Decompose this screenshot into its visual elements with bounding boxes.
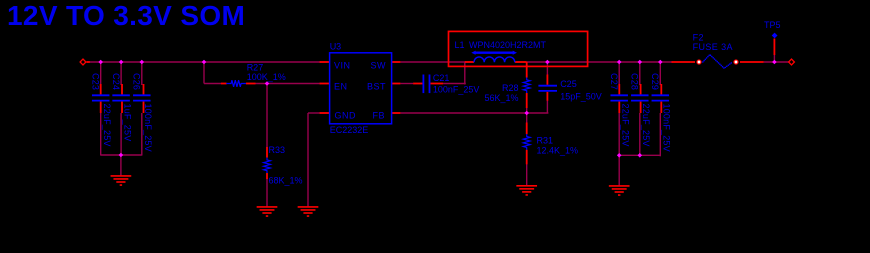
- svg-text:TP5: TP5: [764, 20, 781, 30]
- svg-text:22uF_25V: 22uF_25V: [641, 104, 651, 147]
- svg-text:EN: EN: [334, 82, 348, 92]
- svg-text:R27: R27: [247, 63, 264, 73]
- svg-text:EC2232E: EC2232E: [330, 125, 369, 135]
- svg-text:C26: C26: [132, 73, 142, 90]
- svg-text:100nF_25V: 100nF_25V: [433, 84, 480, 94]
- svg-text:BST: BST: [367, 82, 386, 92]
- svg-text:12V TO 3.3V SOM: 12V TO 3.3V SOM: [7, 0, 245, 31]
- svg-text:FB: FB: [372, 111, 385, 121]
- svg-text:WPN4020H2R2MT: WPN4020H2R2MT: [469, 40, 547, 50]
- svg-text:GND: GND: [335, 111, 357, 121]
- svg-text:22uF_25V: 22uF_25V: [620, 104, 630, 147]
- svg-text:C25: C25: [560, 79, 577, 89]
- svg-text:56K_1%: 56K_1%: [484, 93, 518, 103]
- svg-text:L1: L1: [455, 40, 465, 50]
- svg-text:VIN: VIN: [334, 61, 351, 71]
- svg-text:C27: C27: [609, 73, 619, 90]
- svg-text:FUSE 3A: FUSE 3A: [693, 42, 733, 52]
- svg-text:SW: SW: [371, 61, 387, 71]
- svg-text:100nF_25V: 100nF_25V: [662, 104, 672, 152]
- svg-text:C23: C23: [91, 73, 101, 90]
- svg-text:R31: R31: [537, 136, 554, 146]
- svg-text:R28: R28: [502, 83, 519, 93]
- svg-text:C24: C24: [111, 73, 121, 90]
- svg-text:C29: C29: [650, 73, 660, 90]
- svg-text:1uF_25V: 1uF_25V: [122, 104, 132, 142]
- svg-text:15pF_50V: 15pF_50V: [560, 92, 602, 102]
- svg-text:100K_1%: 100K_1%: [247, 72, 286, 82]
- svg-text:C21: C21: [433, 73, 450, 83]
- svg-text:100nF_25V: 100nF_25V: [143, 104, 153, 152]
- svg-text:C28: C28: [630, 73, 640, 90]
- svg-text:22uF_25V: 22uF_25V: [102, 104, 112, 147]
- svg-text:12.4K_1%: 12.4K_1%: [537, 145, 579, 155]
- svg-text:U3: U3: [330, 42, 342, 52]
- svg-text:68K_1%: 68K_1%: [269, 176, 303, 186]
- svg-text:R33: R33: [269, 145, 286, 155]
- svg-text:F2: F2: [693, 33, 704, 43]
